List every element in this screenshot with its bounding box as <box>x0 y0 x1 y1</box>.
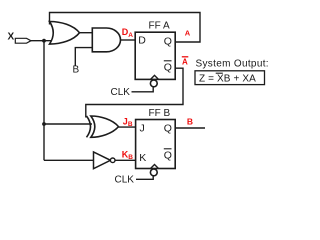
svg-text:KB: KB <box>122 150 134 162</box>
wire: XOR output (JB) to J pin of FF B <box>119 126 136 128</box>
wire: NOT output (KB) to K pin of FF B <box>115 159 136 161</box>
clock bubble of FF A <box>150 80 157 87</box>
xor-gate U3 input arc <box>87 116 91 137</box>
svg-text:K: K <box>139 152 146 164</box>
svg-text:DA: DA <box>122 27 134 39</box>
clock chevron of FF A <box>151 75 159 79</box>
wire: CLK to FF B clock bubble <box>136 176 153 179</box>
svg-text:Q: Q <box>164 36 172 48</box>
svg-text:B: B <box>187 117 193 127</box>
clock chevron of FF B <box>151 165 159 169</box>
wire: CLK to FF A clock bubble <box>132 87 154 92</box>
svg-text:D: D <box>138 35 146 47</box>
node: junction of X bus at XOR branch <box>42 122 46 126</box>
wire: Q output of FF B (signal B) <box>175 127 205 129</box>
wire: OR output to AND upper input <box>79 32 93 34</box>
wire: AND output (DA) to D pin of FF A <box>120 39 136 41</box>
wire: feedback A from Q of FF A up over the top to OR upper input <box>50 13 201 43</box>
svg-text:FF B: FF B <box>149 108 171 119</box>
svg-text:Q: Q <box>164 62 172 74</box>
output equation box <box>195 71 265 85</box>
svg-text:B: B <box>73 65 80 76</box>
not-gate U4 bubble <box>110 158 115 163</box>
and-gate U2 <box>92 28 120 52</box>
wire: X to OR gate lower input <box>31 40 57 42</box>
not-gate U4 triangle <box>94 152 111 169</box>
svg-text:Q: Q <box>164 123 172 135</box>
svg-text:Z = XB + XA: Z = XB + XA <box>199 74 256 85</box>
wire: X bus to NOT gate input <box>44 159 94 161</box>
flip-flop FF B box <box>136 120 176 169</box>
wire: Qbar of FF A down and across to XOR upper input <box>86 68 183 117</box>
wire: X bus to XOR lower input <box>44 123 92 125</box>
svg-text:X: X <box>8 32 15 43</box>
svg-text:CLK: CLK <box>111 87 131 98</box>
xor-gate U3 body <box>91 116 119 137</box>
svg-text:FF A: FF A <box>149 21 170 32</box>
svg-text:System Output:: System Output: <box>196 59 269 70</box>
input connector stub for X <box>15 38 31 43</box>
flip-flop FF A box <box>135 32 175 79</box>
clock bubble of FF B <box>150 169 157 176</box>
node: junction of X bus at OR input <box>42 39 46 43</box>
or-gate U1 <box>50 22 80 45</box>
wire: B to AND lower input <box>75 48 92 66</box>
svg-text:A: A <box>182 57 188 66</box>
svg-text:CLK: CLK <box>115 175 135 186</box>
svg-text:J: J <box>140 123 145 135</box>
svg-text:Q: Q <box>164 150 172 162</box>
wire: X vertical bus down left side <box>43 41 45 161</box>
svg-text:A: A <box>185 28 191 37</box>
svg-text:JB: JB <box>123 116 133 128</box>
